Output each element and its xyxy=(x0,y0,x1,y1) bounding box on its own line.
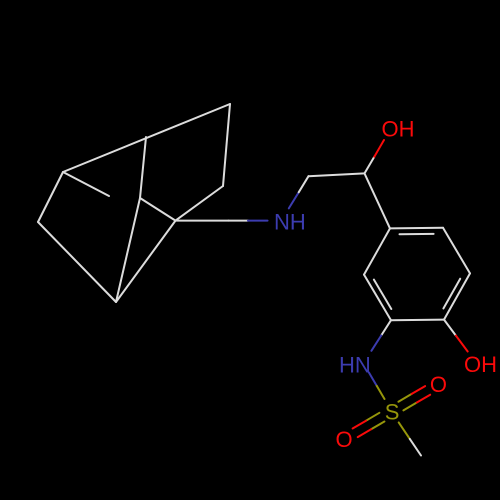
svg-text:OH: OH xyxy=(464,352,497,377)
S=O upper double red half xyxy=(417,395,430,403)
cage inner left stub xyxy=(63,172,109,196)
bond ring-O(H) gray half xyxy=(444,320,456,336)
svg-text:S: S xyxy=(385,400,400,425)
S=O upper double olive half xyxy=(398,394,411,402)
bond ring-O(H) red half xyxy=(456,336,468,352)
bond S-CH3 gray half xyxy=(410,439,421,456)
cage long edge apex-left xyxy=(63,104,230,172)
svg-text:O: O xyxy=(430,372,447,397)
cage apex right-down edge xyxy=(223,104,230,186)
bond C-O(H) red half xyxy=(374,140,384,157)
bond CH2a-N blue half xyxy=(248,220,268,222)
cage bottom-right edge xyxy=(116,221,176,302)
S=O lower double red half xyxy=(358,429,371,437)
ring edge V5-V0 xyxy=(364,275,391,321)
ring inner double V0-V5 xyxy=(374,280,391,309)
ring inner double V4-V3 xyxy=(400,233,434,235)
svg-text:HN: HN xyxy=(339,353,371,378)
ring edge V0-V1 xyxy=(391,319,444,322)
bond S-CH3 olive half xyxy=(399,422,410,439)
cage bottom-left edge xyxy=(38,222,116,302)
ring edge V3-V4 xyxy=(390,227,443,230)
cage left edge xyxy=(38,172,63,222)
bond CH2a-N gray half xyxy=(229,220,249,222)
bond ring-N(HN) gray half xyxy=(381,320,391,335)
S=O lower double red half xyxy=(353,421,366,429)
S=O upper double red half xyxy=(412,386,425,394)
cage right inner edge xyxy=(176,186,224,221)
bond N-CH2b blue half xyxy=(289,192,299,208)
S=O upper double olive half xyxy=(403,403,416,411)
ring edge V1-V2 xyxy=(444,273,470,319)
cage inner vertical xyxy=(140,137,146,198)
svg-text:O: O xyxy=(336,427,353,452)
svg-text:NH: NH xyxy=(274,210,306,235)
cage inner to C1 xyxy=(140,198,176,221)
bond CH2b-C(OH) xyxy=(309,173,365,176)
bond N-S blue half xyxy=(369,373,377,386)
ring edge V4-V5 xyxy=(364,228,390,274)
ring inner double V2-V1 xyxy=(443,279,460,309)
S=O lower double olive half xyxy=(366,413,379,421)
bond C-O(H) gray half xyxy=(365,157,375,174)
bond C(OH)-ring xyxy=(365,173,391,228)
ring edge V2-V3 xyxy=(443,228,470,274)
cage inner lower xyxy=(116,198,140,302)
bond ring-N(HN) blue half xyxy=(371,336,381,351)
bond N-CH2b gray half xyxy=(299,176,309,192)
bond C1-CH2a xyxy=(176,220,229,222)
svg-text:OH: OH xyxy=(382,116,415,141)
bond N-S olive half xyxy=(377,386,385,399)
S=O lower double olive half xyxy=(371,422,384,430)
